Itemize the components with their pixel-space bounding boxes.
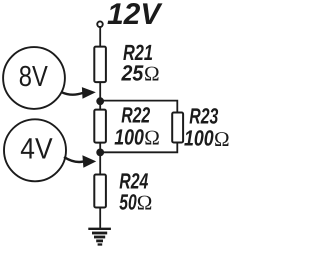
ground [88, 229, 111, 245]
resistor R21 [94, 47, 106, 83]
arrow 8V to node A [62, 92, 84, 94]
wire R21 to node A [99, 82, 101, 110]
wire top terminal to R21 [99, 27, 101, 47]
source circle 4V [4, 119, 66, 181]
svg-text:4V: 4V [20, 133, 53, 166]
svg-text:Ω: Ω [144, 126, 160, 150]
svg-text:Ω: Ω [137, 190, 153, 214]
resistor R22 [94, 110, 106, 143]
wire node A to R23 branch top [100, 101, 177, 113]
svg-text:25: 25 [121, 61, 144, 86]
arrow 4V to node B [64, 157, 83, 162]
svg-text:Ω: Ω [214, 127, 230, 151]
svg-text:12V: 12V [107, 0, 163, 31]
resistor R23 [172, 113, 183, 143]
source circle 8V [3, 47, 65, 109]
resistor R24 [94, 175, 106, 208]
wire R23 bottom to node B [100, 143, 177, 152]
node B [96, 149, 104, 157]
wire R24 to ground [99, 207, 101, 229]
wire R22 to node B to R24 [99, 142, 101, 175]
svg-text:50: 50 [119, 189, 137, 214]
svg-text:8V: 8V [19, 61, 49, 93]
svg-text:100: 100 [114, 125, 144, 150]
svg-text:100: 100 [184, 126, 214, 151]
node A [96, 97, 104, 105]
svg-text:R23: R23 [189, 103, 218, 128]
terminal 12V [97, 21, 103, 27]
svg-text:Ω: Ω [144, 62, 160, 86]
